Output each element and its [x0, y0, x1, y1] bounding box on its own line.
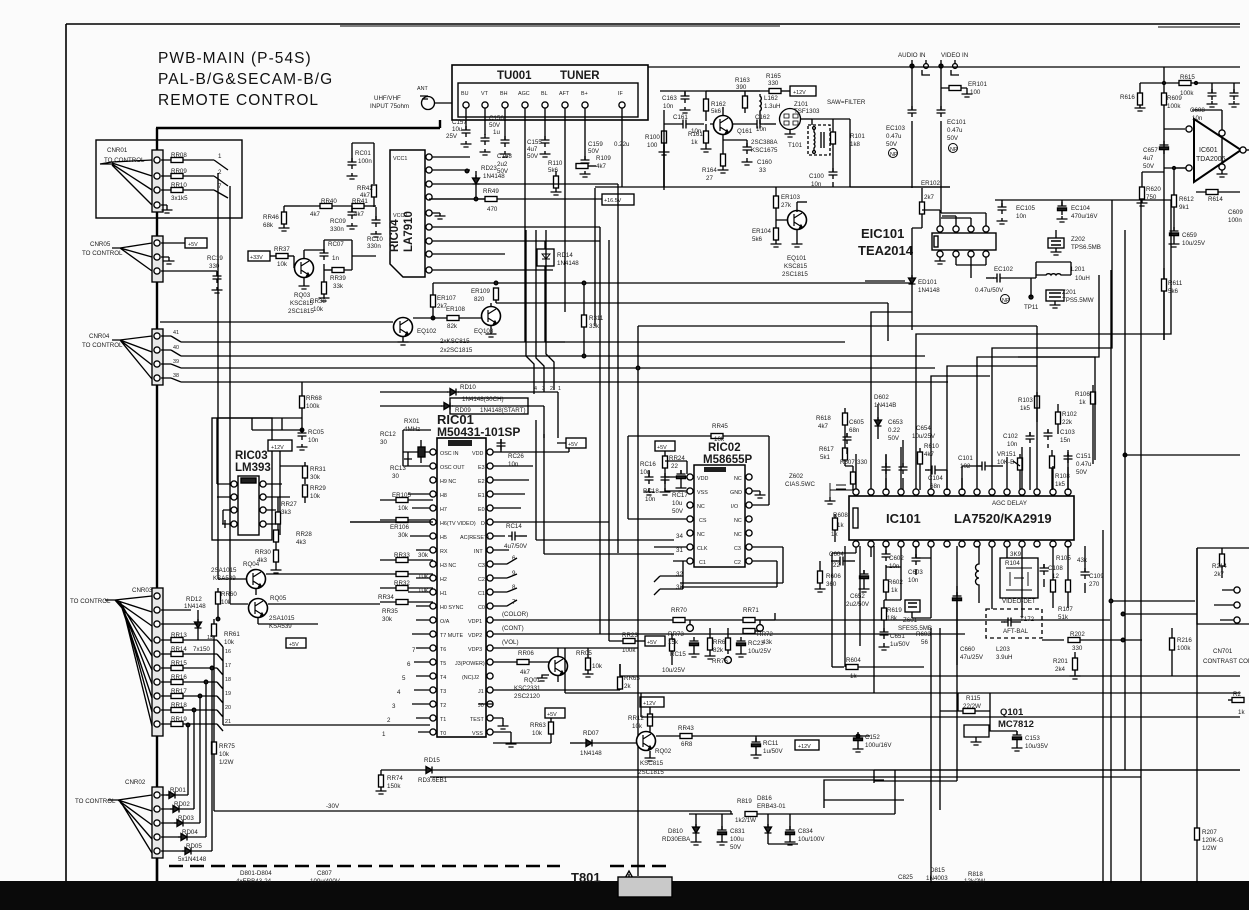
resistor R603	[916, 631, 931, 646]
resistor RR69	[705, 628, 716, 659]
svg-text:C101: C101	[958, 455, 973, 462]
svg-text:Q101: Q101	[1000, 707, 1024, 718]
svg-text:17: 17	[225, 663, 231, 669]
resistor R105	[1051, 546, 1056, 608]
svg-text:33k: 33k	[333, 283, 344, 290]
resistor R115	[940, 693, 990, 731]
svg-text:C0: C0	[478, 605, 485, 611]
svg-text:R161: R161	[688, 131, 703, 138]
svg-text:RC10: RC10	[367, 236, 383, 243]
svg-text:INT: INT	[474, 549, 483, 555]
svg-text:10k: 10k	[418, 587, 429, 594]
svg-text:5: 5	[402, 675, 406, 682]
RIC01 right pins	[487, 449, 493, 735]
svg-text:TO CONTROL: TO CONTROL	[82, 342, 123, 349]
resistor R106	[1091, 385, 1096, 464]
svg-text:C1: C1	[478, 591, 485, 597]
svg-text:NC: NC	[734, 518, 742, 524]
resistor RR63 +5V	[493, 708, 565, 743]
capacitor C660	[953, 546, 962, 665]
resistor RR41	[352, 204, 376, 209]
svg-text:C660: C660	[960, 646, 975, 653]
inductor L201	[1036, 274, 1071, 275]
long wire y=188	[680, 186, 950, 188]
svg-text:4k3: 4k3	[296, 539, 307, 546]
svg-text:C3: C3	[734, 546, 741, 552]
svg-text:100k: 100k	[622, 647, 636, 654]
svg-text:RR14: RR14	[171, 646, 187, 653]
wire thick L from tuner to bus	[156, 120, 440, 128]
svg-text:2SC1815: 2SC1815	[288, 308, 314, 315]
svg-text:R214: R214	[1212, 563, 1227, 570]
svg-text:22k: 22k	[1062, 419, 1073, 426]
svg-text:RR68: RR68	[306, 395, 322, 402]
svg-text:30k: 30k	[310, 474, 321, 481]
svg-text:Q161: Q161	[737, 128, 753, 135]
svg-text:0.47u: 0.47u	[1076, 461, 1092, 468]
svg-text:RR17: RR17	[171, 688, 187, 695]
svg-text:18: 18	[225, 677, 231, 683]
svg-text:330: 330	[209, 263, 220, 270]
capacitor C158	[500, 136, 511, 157]
capacitor C602	[882, 546, 891, 575]
svg-text:4k7: 4k7	[520, 669, 531, 676]
transistor EQ101	[776, 202, 807, 247]
IC101 bottom pin stubs	[832, 546, 1068, 667]
capacitor RC07	[304, 240, 329, 270]
tuner pins BU VT BH AGC BL AFT B+ IF	[463, 102, 625, 108]
resistor RR12 +12V	[640, 697, 664, 727]
svg-text:330: 330	[1072, 645, 1083, 652]
svg-text:RR05: RR05	[576, 650, 592, 657]
capacitor C831	[717, 814, 728, 845]
resistor R163	[743, 91, 748, 113]
resistor R201	[1070, 652, 1081, 679]
svg-text:LM393: LM393	[235, 462, 271, 474]
svg-text:10n: 10n	[508, 461, 519, 468]
svg-text:120K-G: 120K-G	[1202, 837, 1224, 844]
IC101 top pin stubs	[856, 200, 1171, 489]
svg-text:H7: H7	[440, 507, 447, 513]
svg-text:CNR02: CNR02	[125, 779, 146, 786]
svg-text:470: 470	[487, 206, 498, 213]
svg-text:VT: VT	[481, 91, 489, 97]
svg-text:RQ05: RQ05	[270, 595, 287, 602]
resistor R608	[833, 514, 838, 542]
svg-text:82k: 82k	[447, 323, 458, 330]
svg-text:51k: 51k	[1058, 614, 1069, 621]
capacitor C161	[664, 110, 704, 187]
svg-text:Z101: Z101	[794, 101, 809, 108]
svg-text:1k5: 1k5	[1055, 481, 1066, 488]
svg-text:4: 4	[397, 689, 401, 696]
svg-text:H3 NC: H3 NC	[440, 563, 456, 569]
svg-text:RR74: RR74	[387, 775, 403, 782]
svg-text:OSC IN: OSC IN	[440, 451, 459, 457]
svg-text:C155: C155	[527, 139, 542, 146]
svg-text:KSC1675: KSC1675	[751, 147, 778, 154]
svg-text:R619: R619	[887, 607, 902, 614]
transistor Q161	[710, 107, 733, 154]
svg-text:RR72: RR72	[757, 631, 773, 638]
svg-text:RD03: RD03	[178, 815, 194, 822]
svg-text:RC13: RC13	[390, 465, 406, 472]
resistor R207	[1195, 820, 1200, 883]
svg-text:TUNER: TUNER	[560, 70, 600, 82]
svg-text:R617: R617	[819, 446, 834, 453]
svg-text:2: 2	[550, 386, 553, 392]
svg-text:2u2/50V: 2u2/50V	[846, 601, 870, 608]
svg-text:33k: 33k	[589, 323, 600, 330]
svg-text:C602: C602	[889, 555, 904, 562]
svg-text:47u/25V: 47u/25V	[960, 654, 984, 661]
resistor R607 330	[845, 466, 856, 490]
wires CNR01 to right column	[218, 173, 230, 604]
svg-text:C104: C104	[928, 475, 943, 482]
wire y=814	[689, 770, 895, 814]
svg-text:30k: 30k	[382, 616, 393, 623]
capacitor RC15	[689, 637, 700, 657]
resistor RR29	[303, 485, 308, 503]
capacitor C659	[1169, 227, 1180, 247]
svg-text:10n: 10n	[1007, 441, 1018, 448]
svg-text:D801-D804: D801-D804	[240, 870, 272, 877]
connector CNR01 box	[96, 140, 242, 218]
resistor R606	[815, 561, 826, 592]
svg-text:VIDEO-DET: VIDEO-DET	[1002, 598, 1036, 605]
svg-text:30k: 30k	[418, 552, 429, 559]
resistor RR70	[673, 618, 693, 632]
resistors RR33 RR32 RR34 RR35 rows	[380, 558, 433, 605]
svg-text:1/2W: 1/2W	[219, 759, 234, 766]
svg-text:10k: 10k	[224, 639, 235, 646]
svg-text:470u/16V: 470u/16V	[1071, 213, 1098, 220]
svg-text:GND: GND	[730, 490, 742, 496]
resistor R202	[1042, 638, 1142, 643]
capacitor C159	[580, 156, 591, 177]
svg-text:R611: R611	[1168, 280, 1183, 287]
svg-text:100k: 100k	[1180, 90, 1194, 97]
svg-text:R105: R105	[1056, 555, 1071, 562]
svg-text:NP: NP	[950, 147, 958, 153]
svg-text:4: 4	[534, 386, 537, 392]
svg-text:RR19: RR19	[171, 716, 187, 723]
wire stubs into CN701	[1109, 599, 1197, 620]
resistor RR43	[656, 734, 870, 739]
svg-text:330n: 330n	[367, 243, 381, 250]
svg-text:BH: BH	[500, 91, 508, 97]
svg-text:CNR03: CNR03	[132, 587, 153, 594]
wire y=283 long	[433, 281, 912, 315]
resistor RR23 +5V	[609, 613, 665, 646]
svg-text:INPUT 75ohm: INPUT 75ohm	[370, 103, 409, 110]
svg-text:1k2/1W: 1k2/1W	[735, 817, 756, 824]
capacitor C101	[962, 462, 1003, 491]
svg-text:7x150: 7x150	[193, 646, 210, 653]
svg-text:EQ101: EQ101	[787, 255, 807, 262]
resistor R100	[659, 131, 670, 190]
svg-text:50V: 50V	[886, 141, 898, 148]
svg-text:RC23: RC23	[748, 640, 764, 647]
svg-text:VDP3: VDP3	[468, 647, 482, 653]
svg-text:R164: R164	[702, 167, 717, 174]
svg-text:H8: H8	[440, 493, 447, 499]
svg-text:O/A: O/A	[440, 619, 450, 625]
svg-text:56: 56	[921, 639, 928, 646]
wire R163 row	[706, 90, 770, 92]
svg-text:100: 100	[970, 89, 981, 96]
capacitor RC09	[347, 206, 358, 229]
svg-text:RR35: RR35	[382, 608, 398, 615]
svg-text:1k: 1k	[1079, 399, 1086, 406]
wires 34/31/32/33 to left	[536, 420, 683, 595]
svg-text:T4: T4	[440, 675, 446, 681]
svg-text:R216: R216	[1177, 637, 1192, 644]
ANT terminal circle	[422, 97, 435, 110]
svg-text:82k: 82k	[713, 647, 724, 654]
svg-text:RIC02: RIC02	[708, 442, 741, 454]
resistor ER102	[912, 188, 925, 278]
resistor RR09	[171, 174, 183, 179]
resistor R616	[1135, 83, 1146, 111]
resistor RR39	[324, 240, 376, 273]
svg-text:750: 750	[1146, 194, 1157, 201]
svg-text:C162: C162	[755, 114, 770, 121]
svg-text:RR16: RR16	[171, 674, 187, 681]
svg-text:RD05: RD05	[186, 843, 202, 850]
right wires C3-C0 with numbers	[493, 558, 517, 606]
EIC101 TEA2014 label	[858, 226, 914, 258]
svg-text:ER106: ER106	[390, 524, 409, 531]
svg-text:(CONT): (CONT)	[502, 625, 524, 632]
svg-text:2SC2120: 2SC2120	[514, 693, 540, 700]
resistor RR71	[743, 613, 775, 631]
svg-text:+33V: +33V	[250, 255, 263, 261]
svg-text:T101: T101	[788, 142, 803, 149]
svg-text:330: 330	[857, 459, 868, 466]
svg-text:TP11: TP11	[1024, 304, 1039, 311]
svg-text:100n: 100n	[358, 158, 372, 165]
svg-text:RC07: RC07	[328, 241, 344, 248]
connector CNR03 strip	[105, 588, 163, 736]
ceramic Z202	[1048, 230, 1064, 255]
svg-text:2: 2	[387, 717, 391, 724]
svg-text:2SA1015: 2SA1015	[269, 615, 295, 622]
+12V box right of RC11	[795, 740, 819, 750]
diode RD12	[161, 610, 202, 640]
svg-text:C653: C653	[888, 419, 903, 426]
svg-text:EC103: EC103	[886, 125, 905, 132]
svg-text:E2: E2	[478, 479, 485, 485]
resistor R619	[882, 600, 887, 628]
svg-text:+12V: +12V	[793, 90, 806, 96]
resistor ER103	[774, 187, 779, 220]
resistor ER107	[431, 295, 436, 320]
svg-text:CN701: CN701	[1213, 648, 1233, 655]
svg-text:TSF1303: TSF1303	[794, 108, 820, 115]
resistor RR75	[212, 742, 217, 811]
transistor RQ03	[294, 250, 314, 289]
svg-text:H0 SYNC: H0 SYNC	[440, 605, 463, 611]
AFT-BAL dashed box	[986, 609, 1042, 638]
svg-text:10K-B: 10K-B	[997, 459, 1014, 466]
svg-text:LA7520/KA2919: LA7520/KA2919	[954, 511, 1052, 526]
svg-text:30k: 30k	[398, 532, 409, 539]
capacitor C657	[1160, 141, 1249, 154]
svg-text:VDD: VDD	[472, 451, 483, 457]
svg-text:+16.5V: +16.5V	[604, 198, 622, 204]
svg-text:C807: C807	[317, 870, 332, 877]
svg-text:34: 34	[676, 533, 683, 540]
capacitor C162	[733, 118, 776, 129]
diode RD10 row	[380, 389, 558, 439]
svg-text:10k: 10k	[592, 663, 603, 670]
svg-text:R819: R819	[737, 798, 752, 805]
border frame left line	[65, 24, 67, 883]
svg-text:L203: L203	[996, 646, 1010, 653]
capacitor RC17	[676, 470, 687, 491]
svg-text:150k: 150k	[387, 783, 401, 790]
transistor RQ05	[230, 599, 380, 625]
capacitor RC16	[644, 470, 655, 495]
svg-text:RR06: RR06	[518, 650, 534, 657]
svg-text:3: 3	[392, 703, 396, 710]
svg-text:1: 1	[558, 386, 561, 392]
diode RD07	[570, 740, 595, 747]
svg-text:R110: R110	[548, 160, 563, 167]
svg-text:BL: BL	[541, 91, 548, 97]
svg-text:R109: R109	[596, 155, 611, 162]
svg-text:2k: 2k	[624, 683, 631, 690]
capacitor C160	[723, 140, 753, 165]
diode D602	[875, 404, 882, 439]
svg-text:RC26: RC26	[508, 453, 524, 460]
staircase numbers left of RIC01	[382, 647, 416, 738]
capacitor RC14	[505, 532, 527, 541]
svg-text:21: 21	[225, 719, 231, 725]
svg-text:C156: C156	[489, 115, 504, 122]
svg-text:330: 330	[768, 80, 779, 87]
wire y=777 long	[430, 776, 1141, 778]
svg-text:1k: 1k	[831, 531, 838, 538]
resistors RR13-RR19	[161, 638, 241, 732]
svg-text:CS: CS	[699, 518, 707, 524]
crystal Z201	[1046, 290, 1064, 308]
svg-text:2SA1015: 2SA1015	[211, 567, 237, 574]
svg-text:C161: C161	[673, 114, 688, 121]
capacitor C163	[660, 91, 760, 113]
svg-text:R106: R106	[1075, 391, 1090, 398]
svg-text:C151: C151	[1076, 453, 1091, 460]
resistor RR68	[300, 382, 305, 432]
resistor R108	[1050, 450, 1055, 490]
RIC04 right pins	[426, 154, 618, 273]
svg-text:20: 20	[225, 705, 231, 711]
svg-text:VCC2: VCC2	[393, 213, 407, 219]
svg-text:TO CONTROL: TO CONTROL	[70, 598, 111, 605]
svg-text:RQ01: RQ01	[524, 677, 541, 684]
svg-text:C604: C604	[829, 551, 844, 558]
svg-text:2SC388A: 2SC388A	[751, 139, 778, 146]
svg-text:AC(RESET): AC(RESET)	[460, 535, 489, 541]
svg-text:4u7/50V: 4u7/50V	[504, 543, 528, 550]
svg-text:RR31: RR31	[310, 466, 326, 473]
svg-text:VDP1: VDP1	[468, 619, 482, 625]
svg-text:RC11: RC11	[763, 740, 779, 747]
svg-text:EC104: EC104	[1071, 205, 1090, 212]
svg-text:ER104: ER104	[752, 228, 771, 235]
svg-text:820: 820	[474, 296, 485, 303]
svg-text:R101: R101	[850, 133, 865, 140]
svg-text:C3: C3	[478, 563, 485, 569]
wire +12V audio rail	[1140, 67, 1240, 340]
svg-text:12k/2W: 12k/2W	[964, 878, 985, 885]
svg-text:R606: R606	[826, 573, 841, 580]
RIC01 right wires top	[493, 466, 609, 550]
svg-text:OSC OUT: OSC OUT	[440, 465, 465, 471]
svg-text:9: 9	[512, 570, 516, 577]
long wires y=326 y=335	[638, 325, 1037, 327]
svg-text:100k: 100k	[1167, 103, 1181, 110]
svg-text:AUDIO IN: AUDIO IN	[898, 52, 926, 59]
tuner TU001 outer box	[452, 65, 648, 120]
transformer T101	[808, 119, 830, 155]
wire +16.5V row	[429, 194, 634, 205]
svg-text:RR29: RR29	[310, 485, 326, 492]
IC101 body	[849, 496, 1074, 540]
svg-text:VDD: VDD	[697, 476, 708, 482]
svg-text:8: 8	[512, 584, 516, 591]
svg-text:MC7812: MC7812	[998, 719, 1034, 730]
svg-text:41: 41	[173, 330, 179, 336]
resistor RR37	[276, 254, 294, 259]
capacitor RC01	[347, 143, 375, 184]
capacitor RC18	[660, 473, 671, 495]
svg-text:R162: R162	[711, 101, 726, 108]
svg-text:10k: 10k	[313, 306, 324, 313]
svg-text:VSS: VSS	[697, 490, 708, 496]
svg-text:1: 1	[218, 153, 222, 160]
svg-text:(VOL): (VOL)	[502, 639, 519, 646]
svg-text:27: 27	[706, 175, 713, 182]
svg-text:Z201: Z201	[1062, 289, 1077, 296]
svg-text:1k: 1k	[891, 587, 898, 594]
capacitor EC103	[908, 66, 917, 188]
resistor R165	[769, 86, 816, 96]
svg-text:D815: D815	[930, 867, 945, 874]
resistor RR45	[628, 434, 769, 520]
resistor R110	[551, 171, 562, 195]
svg-text:30: 30	[392, 473, 399, 480]
svg-text:C831: C831	[730, 828, 745, 835]
svg-text:H2: H2	[440, 577, 447, 583]
diode RD14 box	[537, 241, 554, 342]
svg-text:5k6: 5k6	[711, 108, 722, 115]
capacitor C157	[461, 126, 472, 147]
svg-text:L162: L162	[764, 95, 778, 102]
resistor R614	[1196, 190, 1240, 195]
svg-text:1u/50V: 1u/50V	[890, 641, 910, 648]
svg-text:10k: 10k	[398, 505, 409, 512]
svg-text:SAW=FILTER: SAW=FILTER	[827, 99, 866, 106]
svg-text:EC102: EC102	[994, 266, 1013, 273]
svg-text:RC17: RC17	[672, 492, 688, 499]
svg-text:+5V: +5V	[647, 640, 657, 646]
svg-text:4k7: 4k7	[924, 451, 935, 458]
svg-text:2u2: 2u2	[497, 161, 508, 168]
capacitor C609	[1228, 209, 1243, 224]
resistor R103	[1035, 392, 1040, 422]
